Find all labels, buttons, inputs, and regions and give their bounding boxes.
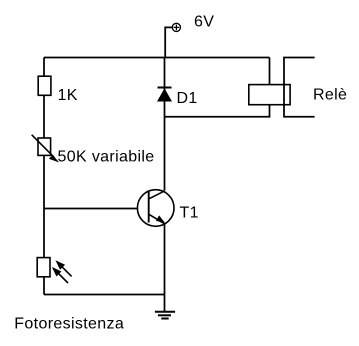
resistor R1 1K	[38, 76, 51, 95]
supply terminal 6V	[172, 23, 180, 31]
wire left column	[43, 58, 45, 295]
wire bottom rail	[44, 294, 165, 296]
photoresistor light arrow 2	[53, 268, 68, 283]
wire relay right lead	[284, 58, 315, 117]
svg-text:T1: T1	[180, 205, 199, 222]
wire top rail	[44, 57, 270, 59]
wire 6V tap	[165, 27, 172, 57]
svg-text:Relè: Relè	[313, 86, 347, 103]
wire relay bottom-left	[165, 105, 270, 117]
photoresistor light arrow 1	[57, 261, 72, 276]
ground	[155, 312, 175, 319]
svg-text:50K variabile: 50K variabile	[58, 148, 155, 165]
transistor T1	[137, 190, 174, 227]
svg-text:6V: 6V	[194, 13, 214, 30]
svg-text:D1: D1	[177, 90, 198, 107]
potentiometer arrow	[32, 135, 58, 162]
diode D1	[157, 88, 172, 102]
svg-text:Fotoresistenza: Fotoresistenza	[14, 316, 124, 333]
potentiometer R2 50K	[38, 138, 51, 155]
wire relay top-left lead	[269, 58, 271, 85]
wire emitter (transistor to bottom rail and ground)	[164, 224, 166, 312]
photoresistor body	[37, 258, 50, 277]
wire base (left column to transistor base)	[44, 208, 149, 210]
svg-text:1K: 1K	[58, 87, 78, 104]
relay coil	[249, 85, 290, 105]
wire collector (main vertical from rail to transistor)	[164, 58, 166, 191]
